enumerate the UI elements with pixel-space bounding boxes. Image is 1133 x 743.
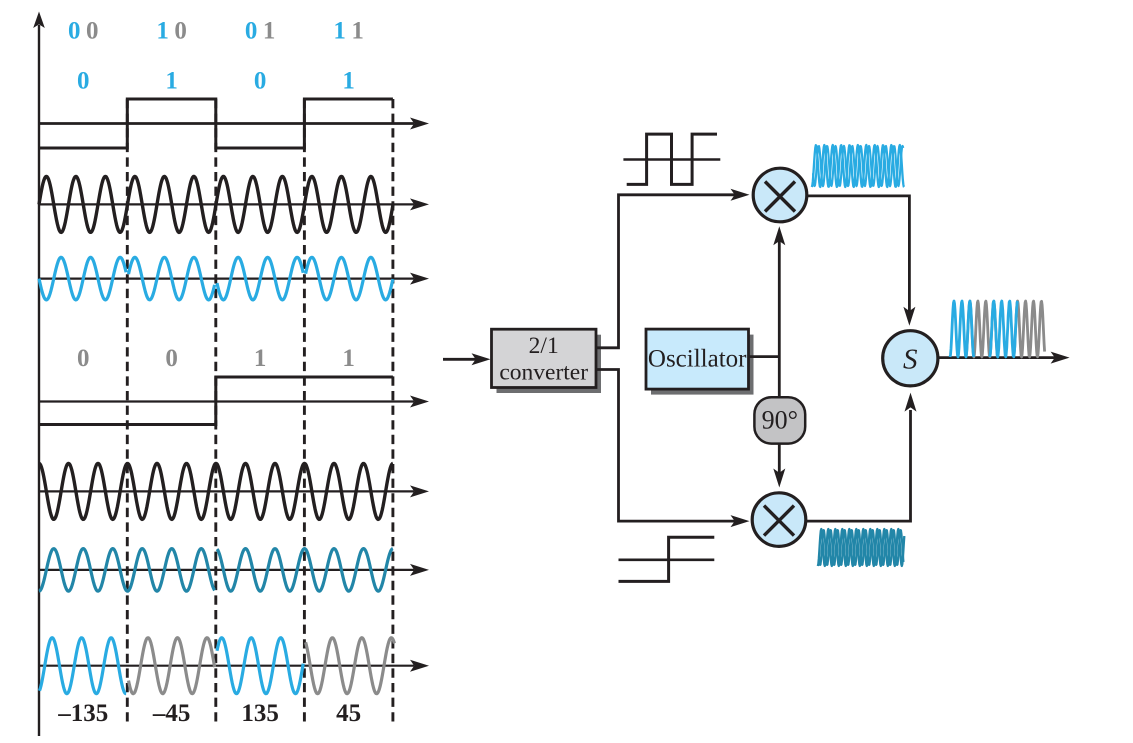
output wire from summer [938,356,1055,359]
svg-text:90°: 90° [762,406,798,435]
dashed segment boundary 4 [391,99,394,723]
top multiplier (mixer) [753,168,807,222]
svg-text:–135: –135 [57,700,108,727]
dibit labels row (00 10 01 11) [68,18,364,45]
bottom multiplier (mixer) [752,493,806,547]
second carrier sine wave (black, 90 deg shifted) [39,463,393,519]
svg-text:1: 1 [342,345,355,372]
second carrier sine wave axis [39,490,414,492]
dashed segment boundary 2 [214,99,217,723]
first NRZ signal time axis [39,122,414,125]
composite QPSK wave icon (summer output) [966,301,998,357]
svg-text:0: 0 [174,18,187,45]
teal modulated wave icon (bottom branch output) [818,529,905,566]
wire from oscillator to carrier line [749,355,780,358]
second-bit labels row (0 0 1 1) [77,345,355,372]
first carrier sine wave axis [39,203,414,205]
svg-text:1: 1 [165,68,178,95]
first carrier sine wave (black) [39,176,393,232]
second NRZ signal time axis [39,400,414,402]
svg-text:0: 0 [245,18,258,45]
first-bit labels row (0 1 0 1) [77,68,355,95]
svg-text:1: 1 [156,18,169,45]
svg-text:1: 1 [263,18,276,45]
svg-text:1: 1 [254,345,267,372]
input wire into 2/1 converter [443,358,477,361]
2/1 converter block [497,335,602,393]
svg-text:0: 0 [68,18,81,45]
svg-text:Oscillator: Oscillator [648,345,747,372]
phase labels row (-135 -45 135 45) [57,700,361,727]
svg-text:0: 0 [86,18,99,45]
wire from top multiplier to summer [807,196,910,312]
carrier wire up into top multiplier [778,239,781,397]
wire from bottom multiplier to summer [806,410,911,521]
svg-text:converter: converter [499,360,588,386]
svg-text:1: 1 [342,68,355,95]
svg-text:0: 0 [254,68,267,95]
svg-text:0: 0 [77,345,90,372]
second NRZ square wave (0 0 1 1) [39,377,393,425]
svg-text:–45: –45 [152,700,191,727]
first NRZ square wave (0 1 0 1) [39,99,393,148]
svg-text:0: 0 [77,68,90,95]
svg-text:2/1: 2/1 [529,333,559,359]
oscillator block [651,335,754,395]
carrier wire down into bottom multiplier [778,444,781,474]
composite QPSK wave (alternating cyan/gray) [40,638,127,694]
first modulated wave axis [39,278,414,280]
svg-text:45: 45 [336,700,361,727]
svg-text:135: 135 [241,700,279,727]
second modulated wave axis [39,569,414,571]
summer S block [883,331,938,386]
svg-text:0: 0 [165,345,178,372]
wire from converter to top multiplier [596,195,735,348]
step wave icon (bottom branch) [619,558,715,561]
second modulated wave (teal, BPSK of bit2) [39,549,215,592]
90-degree phase shifter block [754,397,805,443]
left vertical axis arrowhead [33,12,45,29]
composite QPSK wave axis [39,665,414,667]
cyan modulated wave icon (top branch output) [812,145,904,187]
svg-text:1: 1 [351,18,364,45]
dashed segment boundary 1 [126,99,129,723]
svg-text:S: S [903,344,918,376]
dashed segment boundary 3 [303,99,306,723]
first modulated wave (cyan, BPSK of bit1) [39,257,126,300]
svg-text:1: 1 [333,18,346,45]
square wave icon (top branch) [623,158,720,161]
left time-axis vertical line [38,25,40,736]
wire from converter to bottom multiplier [596,370,735,522]
